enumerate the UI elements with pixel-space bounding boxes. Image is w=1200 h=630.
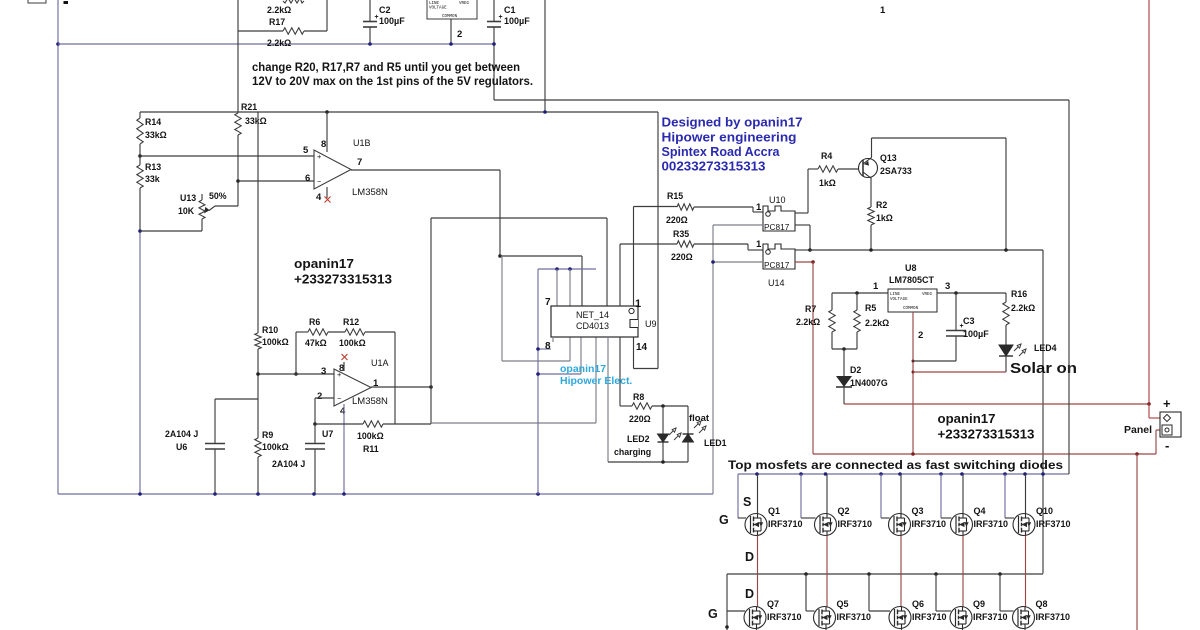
svg-text:1: 1	[873, 281, 879, 292]
junction (1149,404)	[1147, 402, 1151, 406]
junction (238,181)	[236, 179, 240, 183]
junction (327,112)	[325, 110, 329, 114]
svg-text:220Ω: 220Ω	[629, 414, 651, 424]
svg-text:2SA733: 2SA733	[880, 166, 912, 176]
resistor R11	[363, 421, 383, 427]
svg-text:IRF3710: IRF3710	[768, 519, 803, 529]
junction (844,349)	[842, 347, 846, 351]
svg-text:LINE: LINE	[890, 293, 901, 297]
junction (1006,250)	[1004, 248, 1008, 252]
svg-text:100kΩ: 100kΩ	[339, 338, 366, 348]
svg-text:U6: U6	[176, 442, 187, 452]
mosfet Q1 IRF3710	[745, 514, 767, 536]
svg-text:change R20, R17,R7 and R5 unti: change R20, R17,R7 and R5 until you get …	[252, 60, 520, 74]
svg-text:U7: U7	[322, 429, 333, 439]
wire: Q13 collector to R2	[870, 179, 872, 208]
svg-text:opanin17: opanin17	[560, 363, 606, 375]
svg-text:PC817: PC817	[764, 222, 790, 232]
wire: Q7 gate rail down	[726, 611, 728, 630]
wire: bottom bus y=494	[58, 493, 713, 495]
svg-text:PC817: PC817	[764, 260, 790, 270]
wire: Q9 source down	[962, 629, 964, 630]
wires: IC bottom stubs	[552, 337, 554, 342]
svg-text:100kΩ: 100kΩ	[262, 337, 289, 347]
svg-text:U8: U8	[905, 263, 917, 273]
resistor R7	[831, 293, 833, 310]
wire: Q5 source down	[825, 629, 827, 630]
resistor R16	[1005, 293, 1007, 302]
LED1 float	[687, 406, 689, 442]
resistor R15	[634, 206, 678, 208]
wire: R6 left down	[295, 332, 297, 374]
svg-text:2: 2	[457, 29, 462, 40]
svg-text:33k: 33k	[145, 174, 160, 184]
wire: vertical x=545	[544, 0, 546, 112]
wire: blue bus above IC	[538, 268, 596, 270]
svg-text:opanin17: opanin17	[938, 411, 996, 426]
svg-text:33kΩ: 33kΩ	[145, 130, 167, 140]
wire: U10 pin3	[795, 224, 810, 226]
wire: blue y=374 stub	[538, 373, 581, 375]
svg-text:Q1: Q1	[768, 506, 780, 516]
junction dots top rail	[755, 472, 759, 476]
junction reg pin2 on bus	[449, 42, 453, 46]
wire: Q10 drain down (red)	[1025, 536, 1027, 608]
wire: R35 feed from IC top	[619, 244, 621, 306]
junction (296,374)	[294, 372, 298, 376]
svg-text:4: 4	[340, 406, 346, 417]
wire: x=1043 down	[1042, 250, 1044, 574]
svg-text:U14: U14	[768, 278, 785, 288]
wire: Q7 gate from bottom rail	[726, 574, 728, 611]
junction (315,424)	[313, 422, 317, 426]
svg-text:2.2kΩ: 2.2kΩ	[796, 317, 820, 327]
wire: IC supply from rail 112	[657, 112, 659, 369]
junction (727,627)	[725, 625, 729, 629]
wire: Q10 source from rail	[1025, 474, 1027, 514]
wire: x=1069 from y=100 to rail	[1068, 100, 1070, 474]
svg-text:R17: R17	[269, 17, 285, 27]
svg-text:7: 7	[545, 297, 551, 308]
wire: U8 pin2 maroon down	[912, 312, 914, 454]
optocoupler U10 PC817	[763, 206, 795, 231]
svg-text:1: 1	[756, 239, 762, 250]
wire: U14 pin2	[713, 261, 763, 263]
wire: x=1137 down	[1136, 454, 1138, 630]
svg-text:LED2: LED2	[627, 434, 650, 444]
svg-text:3: 3	[945, 281, 950, 292]
partial box top-left corner	[28, 0, 46, 3]
resistor R14	[139, 112, 141, 118]
wire: top rail y=474	[738, 473, 1069, 475]
svg-text:COMMON: COMMON	[903, 307, 919, 311]
svg-text:U1B: U1B	[353, 138, 371, 148]
svg-text:+: +	[499, 14, 503, 21]
wire: Q5 gate from bottom rail	[805, 574, 807, 611]
svg-text:charging: charging	[614, 447, 651, 457]
resistor R35	[620, 243, 677, 245]
svg-text:+: +	[1163, 396, 1171, 411]
svg-text:G: G	[708, 607, 718, 621]
svg-text:IRF3710: IRF3710	[912, 612, 947, 622]
wire: Q3 gate from rail	[880, 474, 882, 518]
resistor R4	[808, 168, 818, 170]
wire: bottom y=349	[832, 348, 857, 350]
capacitor C1	[493, 0, 495, 21]
wire: Q2 gate from rail	[800, 474, 802, 518]
svg-text:Q2: Q2	[838, 506, 850, 516]
junction C1 on bus	[492, 42, 496, 46]
svg-text:+: +	[375, 14, 379, 21]
mosfet Q3 IRF3710	[889, 514, 911, 536]
svg-text:COMMON: COMMON	[442, 15, 458, 19]
wire: Q6 source down	[901, 629, 903, 630]
wire: gate drive y=250	[810, 249, 1043, 251]
wire: Q3 drain down (red)	[900, 536, 902, 608]
svg-text:Q6: Q6	[912, 599, 924, 609]
wire: Q13 emitter up and over	[871, 138, 873, 158]
wire: vertical x=238 from top	[237, 0, 239, 113]
svg-text:5: 5	[303, 145, 309, 156]
mosfet Q9 IRF3710	[950, 607, 972, 629]
svg-text:50%: 50%	[209, 191, 227, 201]
svg-text:1kΩ: 1kΩ	[876, 213, 893, 223]
svg-text:R35: R35	[673, 229, 689, 239]
wire: maroon y=454	[813, 453, 1156, 455]
svg-text:−: −	[317, 177, 322, 186]
svg-text:C1: C1	[504, 5, 516, 15]
wire: Q4 gate from rail	[940, 474, 942, 518]
wire R6-R12	[328, 331, 345, 333]
wire: x=258 column	[257, 112, 259, 333]
wire: R12 right to feedback	[365, 331, 395, 333]
svg-text:LED4: LED4	[1034, 343, 1057, 353]
svg-text:IRF3710: IRF3710	[1036, 612, 1071, 622]
svg-text:1: 1	[880, 5, 886, 16]
junction at (58,44)	[56, 42, 60, 46]
svg-text:IRF3710: IRF3710	[912, 519, 947, 529]
svg-text:220Ω: 220Ω	[671, 252, 693, 262]
wire: vertical x=327 to top	[326, 0, 328, 31]
svg-text:S: S	[743, 495, 751, 509]
resistor R8	[620, 405, 632, 407]
svg-text:R11: R11	[363, 444, 379, 454]
svg-text:IRF3710: IRF3710	[837, 612, 872, 622]
svg-text:IRF3710: IRF3710	[973, 612, 1008, 622]
wire: blue vertical x=538	[537, 269, 539, 494]
svg-text:100µF: 100µF	[504, 16, 530, 26]
resistor R20 sliver at top	[283, 0, 304, 3]
svg-text:R21: R21	[241, 102, 257, 112]
svg-text:3: 3	[321, 366, 326, 377]
svg-text:Q3: Q3	[912, 506, 924, 516]
wire: U1A net up-over to IC	[430, 218, 432, 424]
resistor R2	[868, 207, 874, 225]
svg-text:LED1: LED1	[704, 438, 727, 448]
svg-text:8: 8	[321, 139, 326, 150]
svg-text:1: 1	[635, 298, 641, 310]
resistor R10	[255, 333, 261, 349]
wire: Q3 source from rail	[900, 474, 902, 514]
wire: left vertical rail x=58	[57, 0, 59, 494]
IC U9 CD4013 box	[551, 306, 638, 337]
svg-text:Hipower engineering: Hipower engineering	[662, 129, 797, 144]
svg-text:G: G	[719, 513, 729, 527]
svg-text:1N4007G: 1N4007G	[850, 378, 888, 388]
voltage regulator U5 box (cut at top)	[427, 0, 477, 19]
svg-text:Q10: Q10	[1036, 506, 1053, 516]
svg-text:100kΩ: 100kΩ	[262, 442, 289, 452]
wire: pin2 and R11 feedback	[315, 397, 334, 399]
svg-text:+233273315313: +233273315313	[938, 427, 1035, 442]
wire: Q2 source from rail	[826, 474, 828, 514]
wire: Q4 source from rail	[962, 474, 964, 514]
junction (713,262)	[711, 260, 715, 264]
wire: maroon y=372	[913, 371, 1006, 373]
connector Panel	[1160, 412, 1181, 437]
svg-text:10K: 10K	[178, 206, 195, 216]
wire: x=713 vertical	[712, 225, 714, 494]
resistor R21	[235, 113, 241, 135]
mosfet Q2 IRF3710	[815, 514, 837, 536]
svg-text:U10: U10	[769, 195, 786, 205]
wire: U14 pin4	[795, 249, 810, 251]
svg-text:IRF3710: IRF3710	[838, 519, 873, 529]
svg-text:6: 6	[305, 173, 310, 184]
junction (1137,454)	[1135, 452, 1139, 456]
svg-text:Hipower Elect.: Hipower Elect.	[560, 375, 632, 387]
mosfet Q10 IRF3710	[1013, 514, 1035, 536]
wire: Q1 gate from rail	[737, 474, 739, 518]
capacitor U6	[214, 399, 216, 443]
wire: long horizontal y=100	[494, 99, 1069, 101]
wire: Q6 gate from bottom rail	[868, 574, 870, 611]
LED2 charging	[662, 406, 664, 434]
junction C2 on bus	[368, 42, 372, 46]
wire: Q1 source from rail	[757, 474, 759, 514]
wire: panel- jog	[1156, 429, 1162, 431]
wire: Q2 drain down (red)	[826, 536, 828, 608]
junction (810,250)	[808, 248, 812, 252]
wires: IC top pins	[556, 269, 558, 306]
junction (813,262)	[811, 260, 815, 264]
mosfet Q7 IRF3710	[744, 607, 766, 629]
resistor R9	[255, 438, 261, 457]
mosfet Q8 IRF3710	[1013, 607, 1035, 629]
wire: red to panel+	[1148, 404, 1150, 418]
wire: pin3 y=293 right	[937, 292, 1006, 294]
junction (663,406)	[661, 404, 665, 408]
wire: maroon x=813 down	[812, 262, 814, 454]
junction (913,361)	[912, 360, 915, 363]
svg-text:1kΩ: 1kΩ	[819, 178, 836, 188]
svg-text:Top mosfets are connected as f: Top mosfets are connected as fast switch…	[728, 458, 1063, 472]
svg-text:R15: R15	[667, 191, 683, 201]
wire: blue bus y=44	[58, 43, 494, 45]
wire: loop below IC for U1B net	[569, 337, 571, 361]
wire: pin6 input	[238, 180, 314, 182]
diode D2 1N4007G	[843, 349, 845, 376]
wire: Q9 gate from bottom rail	[935, 574, 937, 611]
svg-text:100kΩ: 100kΩ	[357, 431, 384, 441]
svg-text:-: -	[1165, 438, 1169, 453]
mosfet Q4 IRF3710	[951, 514, 973, 536]
svg-text:VOLTAGE: VOLTAGE	[429, 7, 447, 11]
svg-text:Q9: Q9	[973, 599, 985, 609]
svg-text:float: float	[689, 413, 710, 424]
wire: U14 pin3 maroon	[795, 261, 813, 263]
svg-text:R16: R16	[1011, 289, 1027, 299]
svg-text:D: D	[745, 550, 754, 564]
wire: Q1 drain down (red)	[757, 536, 759, 608]
wire: U1A output	[371, 386, 431, 388]
wire: rail y=112	[140, 111, 658, 113]
svg-text:2: 2	[317, 391, 322, 402]
junction (913,372)	[912, 371, 915, 374]
svg-text:R12: R12	[343, 317, 359, 327]
op-amp U1B	[314, 150, 351, 189]
svg-text:Q4: Q4	[974, 506, 986, 516]
wire: Q8 gate from bottom rail	[999, 574, 1001, 611]
mosfet Q6 IRF3710	[889, 607, 911, 629]
svg-text:C3: C3	[963, 316, 975, 326]
svg-text:1: 1	[756, 202, 762, 213]
U1A pin8 stub with x	[343, 362, 345, 371]
svg-text:7: 7	[357, 157, 362, 168]
capacitor C2	[369, 0, 371, 21]
wire: U1A pin4 down to bus	[343, 404, 345, 494]
wire: U1B output	[351, 169, 500, 171]
wire: corner to U6	[215, 398, 258, 400]
svg-text:LM7805CT: LM7805CT	[889, 275, 935, 285]
svg-text:R10: R10	[262, 325, 278, 335]
junction (258,374)	[256, 372, 260, 376]
svg-text:R8: R8	[633, 392, 644, 402]
wire: U1B pin8	[326, 112, 328, 152]
svg-text:R9: R9	[262, 430, 273, 440]
svg-text:U9: U9	[645, 319, 657, 329]
capacitor U7 leg	[314, 424, 316, 443]
U1B pin4 stub with x	[326, 187, 328, 198]
resistor R5	[856, 293, 858, 310]
resistor R12	[345, 329, 365, 335]
svg-text:2.2kΩ: 2.2kΩ	[267, 38, 291, 48]
op-amp U1A	[334, 369, 371, 406]
svg-text:C2: C2	[379, 5, 391, 15]
svg-text:R2: R2	[876, 200, 887, 210]
svg-text:14: 14	[636, 342, 648, 353]
resistor R6	[296, 331, 308, 333]
junction (663,462)	[661, 460, 665, 464]
junction dots on bus	[138, 492, 142, 496]
black mark near top-left	[64, 1, 69, 4]
wire: Q4 drain down (red)	[962, 536, 964, 608]
svg-text:VREG: VREG	[459, 2, 470, 6]
junction (545,112)	[543, 110, 547, 114]
svg-text:Q5: Q5	[837, 599, 849, 609]
svg-text:Q7: Q7	[767, 599, 779, 609]
junction (956,293)	[954, 291, 958, 295]
wire: pin1 rail y=293	[832, 292, 888, 294]
svg-text:−: −	[337, 394, 342, 403]
svg-text:2: 2	[918, 330, 923, 341]
wire: maroon y=404 D2 to panel+	[844, 403, 1149, 405]
junction dots bottom rail	[804, 572, 808, 576]
svg-text:CD4013: CD4013	[576, 321, 609, 331]
svg-text:R7: R7	[805, 304, 816, 314]
svg-text:220Ω: 220Ω	[666, 215, 688, 225]
svg-text:Solar on: Solar on	[1010, 360, 1077, 377]
svg-text:IRF3710: IRF3710	[767, 612, 802, 622]
svg-text:4: 4	[316, 192, 322, 203]
wire: LED bottom rail	[608, 461, 688, 463]
svg-text:33kΩ: 33kΩ	[245, 116, 267, 126]
wire: U10 pin2	[713, 224, 763, 226]
svg-text:R14: R14	[145, 117, 161, 127]
wire: U10 pin4 to R4	[795, 212, 808, 214]
junction R14/R13	[138, 154, 142, 158]
wire: bottom rail y=574	[727, 573, 1043, 575]
svg-text:00233273315313: 00233273315313	[662, 158, 766, 173]
junction (500,256)	[498, 254, 502, 258]
wire: Q7 source down	[756, 629, 758, 630]
junction (913,454)	[911, 452, 915, 456]
svg-text:2A104 J: 2A104 J	[165, 429, 198, 439]
svg-text:Panel: Panel	[1124, 424, 1152, 436]
potentiometer U13	[215, 205, 238, 207]
svg-text:R6: R6	[309, 317, 320, 327]
svg-text:47kΩ: 47kΩ	[305, 338, 327, 348]
wire: IC pin8 stub	[538, 348, 551, 350]
svg-text:2.2kΩ: 2.2kΩ	[267, 5, 291, 15]
svg-text:12V to 20V max on the 1st pins: 12V to 20V max on the 1st pins of the 5V…	[252, 74, 533, 88]
svg-text:U1A: U1A	[371, 358, 389, 368]
LED4 Solar on	[999, 345, 1013, 356]
svg-text:VREG: VREG	[922, 293, 933, 297]
regulator pin 2 wire	[450, 19, 452, 44]
resistor R17	[238, 30, 283, 32]
svg-text:R13: R13	[145, 162, 161, 172]
wire: red vertical x=1149	[1148, 0, 1150, 404]
svg-text:LINE: LINE	[429, 2, 440, 6]
junction (857,293)	[855, 291, 859, 295]
svg-text:8: 8	[545, 341, 551, 352]
optocoupler U14 PC817	[763, 244, 795, 269]
svg-text:2.2kΩ: 2.2kΩ	[1011, 303, 1035, 313]
resistor R13	[139, 156, 141, 165]
svg-text:opanin17: opanin17	[294, 256, 354, 271]
svg-text:+: +	[317, 152, 322, 161]
transistor Q13 2SA733	[859, 159, 878, 178]
wire: pin5 input	[140, 155, 314, 157]
junction (140,231)	[138, 229, 142, 233]
svg-text:D2: D2	[850, 365, 861, 375]
svg-text:R5: R5	[865, 303, 876, 313]
svg-text:NET_14: NET_14	[576, 310, 609, 320]
svg-text:2A104 J: 2A104 J	[272, 459, 305, 469]
mosfet Q5 IRF3710	[814, 607, 836, 629]
svg-text:LM358N: LM358N	[352, 187, 388, 198]
junction (871,250)	[869, 248, 873, 252]
regulator U8 LM7805CT box	[888, 289, 937, 312]
wire: IC pin to R8	[619, 337, 621, 406]
wire: loop below IC for U1A net	[595, 337, 597, 423]
wire: Q8 source down	[1024, 629, 1026, 630]
svg-text:100µF: 100µF	[379, 16, 405, 26]
svg-text:R4: R4	[821, 151, 832, 161]
svg-text:Spintex Road Accra: Spintex Road Accra	[662, 144, 781, 159]
svg-text:100µF: 100µF	[963, 329, 989, 339]
